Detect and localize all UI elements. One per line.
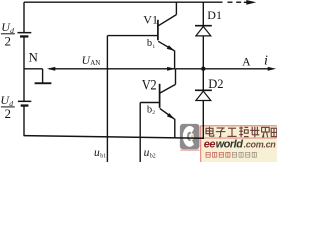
svg-text:b: b [147,38,152,49]
watermark divider line [201,137,277,139]
svg-text:1: 1 [152,44,155,50]
watermark chinese row (simulated glyph strokes) [206,127,277,138]
svg-text:b1: b1 [100,154,106,160]
watermark box [201,126,281,166]
U_AN left arrowhead [47,67,56,71]
V2 emitter arrowhead [167,113,175,119]
svg-text:world: world [216,139,244,151]
battery E1 lower plate short [20,35,28,37]
U_AN measuring line [49,68,175,70]
svg-text:2: 2 [152,110,155,116]
battery E2 lower plate short [21,104,29,106]
V1 emitter arrowhead [167,45,175,51]
V2 base lead wire [140,102,160,104]
svg-text:D2: D2 [208,77,223,91]
left wire middle segment [23,37,25,102]
label Ud/2 lower [0,93,14,121]
junction dot node A column [201,67,205,71]
node N branch horizontal wire [24,68,43,70]
node N branch vertical wire [42,69,44,83]
svg-text:u: u [144,147,150,159]
svg-text:u: u [94,147,100,159]
dashed continuation segment 1 [228,1,233,3]
battery E2 upper plate long [18,101,31,103]
output line node A [176,68,270,70]
V2 emitter diagonal [160,108,175,119]
svg-text:AN: AN [90,59,100,67]
label u_b1 [94,147,106,159]
watermark eeworld logo badge [180,124,200,151]
V2 base bar [159,84,161,108]
left wire lower segment [23,106,25,137]
u_b1 drive wire [106,36,108,162]
V2 collector diagonal [160,84,176,93]
dashed continuation arrowhead [246,0,256,5]
svg-text:ee: ee [204,139,216,151]
D1 anode wire [202,36,204,69]
svg-text:V1: V1 [143,13,158,27]
svg-text:V2: V2 [142,77,157,93]
U_AN right arrowhead [167,67,176,71]
V1 emitter diagonal [158,41,174,50]
D2 cathode bar [195,89,212,91]
V2 collector vertical wire [175,69,177,85]
dashed continuation tail [244,1,248,3]
watermark small slogan row (simulated tiny glyphs) [206,152,256,157]
V1 base bar [157,20,159,41]
left wire upper segment [23,2,25,32]
svg-text:D1: D1 [207,8,222,22]
node N reference bar [35,82,52,84]
D2 anode wire [202,101,204,139]
V2 emitter vertical wire [174,119,176,138]
label b2 [147,105,155,117]
bottom rail wire [24,136,204,139]
D1 cathode wire [202,2,204,26]
u_b2 drive wire [139,103,141,163]
svg-text:i: i [264,54,268,69]
V1 collector vertical wire [175,2,177,14]
D1 triangle [196,27,211,36]
top rail wire [24,1,223,3]
svg-text:2: 2 [5,106,12,121]
svg-text:A: A [242,57,251,69]
label u_b2 [144,147,156,159]
D2 triangle [196,91,211,100]
D1 cathode bar [195,25,212,27]
D2 cathode wire [202,69,204,91]
svg-text:.com.cn: .com.cn [244,139,277,149]
output current arrowhead [268,67,277,71]
label Ud/2 upper [1,20,15,48]
battery E1 upper plate long [18,32,32,34]
svg-text:b2: b2 [150,154,156,160]
watermark eeworld.com.cn row [204,139,277,151]
V1 collector diagonal [158,15,176,26]
circuit drawing on top of watermark [24,2,269,162]
svg-text:N: N [29,49,39,64]
V1 emitter vertical wire [174,50,176,68]
dashed continuation segment 2 [236,1,241,3]
label b1 [147,38,156,50]
svg-text:2: 2 [5,34,12,49]
V1 base lead wire [107,35,157,37]
label U_AN [82,55,101,67]
